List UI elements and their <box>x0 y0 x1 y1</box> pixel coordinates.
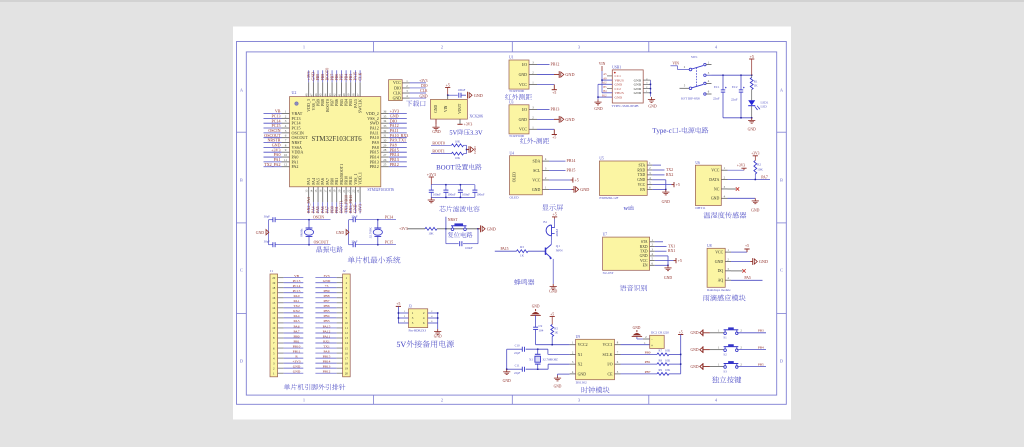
inner border frame <box>246 52 776 395</box>
U7 pin 4 GND <box>640 252 655 258</box>
wire GND <box>731 261 750 263</box>
svg-text:DC2 CR1220: DC2 CR1220 <box>651 331 669 335</box>
J2 pin 13 <box>315 334 348 340</box>
power +5 bar <box>552 89 557 91</box>
svg-text:15: 15 <box>345 346 349 350</box>
svg-text:I/O: I/O <box>522 108 527 112</box>
wire bottom loop <box>445 229 447 244</box>
wire crystal left bus <box>506 349 508 369</box>
svg-text:VCC: VCC <box>715 251 723 255</box>
svg-text:10K: 10K <box>665 358 671 362</box>
U2 top pin 47 VSS_3 <box>309 70 315 110</box>
U2 left pin 11 PA1 <box>264 158 299 165</box>
svg-text:I/O: I/O <box>522 63 527 67</box>
J1 pin 10 <box>272 324 303 330</box>
GND flag right <box>478 228 481 230</box>
U2 left pin 9 VDDA <box>264 148 304 155</box>
svg-text:30pF: 30pF <box>264 215 271 219</box>
svg-text:GND: GND <box>474 93 483 98</box>
svg-text:10K: 10K <box>428 232 434 236</box>
svg-text:STM32F103C8T6: STM32F103C8T6 <box>368 188 395 192</box>
svg-text:PA15: PA15 <box>323 324 331 328</box>
svg-text:GND: GND <box>637 178 645 182</box>
svg-text:B1: B1 <box>543 220 547 224</box>
capacitor EC2 22uF <box>731 75 745 118</box>
svg-text:VCC2: VCC2 <box>578 343 588 347</box>
svg-text:RX2: RX2 <box>666 173 673 177</box>
svg-text:GND: GND <box>393 96 402 100</box>
svg-text:RX1: RX1 <box>668 249 675 253</box>
U8 pin 3 DQ <box>718 267 731 273</box>
svg-text:PB12: PB12 <box>323 369 331 373</box>
svg-text:S3: S3 <box>723 369 727 373</box>
wire switch to caps rail <box>712 74 752 76</box>
svg-text:VIN: VIN <box>599 62 606 66</box>
svg-text:DIO: DIO <box>421 84 428 88</box>
svg-text:C10: C10 <box>515 344 521 348</box>
svg-text:PA1: PA1 <box>294 299 300 303</box>
U2 right pin 34 SWD <box>370 119 407 126</box>
title MCU pin breakout headers <box>284 384 290 390</box>
svg-text:19: 19 <box>272 281 276 285</box>
svg-text:GND: GND <box>748 128 756 132</box>
wire vcc2 bus <box>536 344 570 346</box>
wire U9 gnd <box>558 373 570 375</box>
svg-text:GND: GND <box>751 209 759 213</box>
svg-text:22uF: 22uF <box>713 97 720 101</box>
svg-text:28: 28 <box>383 148 387 152</box>
J2 pin 11 <box>315 324 348 330</box>
svg-text:1K: 1K <box>754 84 759 88</box>
wire PB14 <box>549 160 566 162</box>
no-connect NC <box>728 188 737 190</box>
svg-text:PC15: PC15 <box>385 240 393 244</box>
wire VCC +5 <box>731 251 747 253</box>
svg-text:RX2: RX2 <box>293 309 300 313</box>
svg-text:GND: GND <box>554 385 562 389</box>
sensor U3 TCRT5000 body <box>509 105 529 134</box>
svg-text:Pin-HDR2X3: Pin-HDR2X3 <box>409 329 427 333</box>
title download port <box>406 100 412 106</box>
battery plus to +5 bus <box>664 344 668 346</box>
svg-text:PB3: PB3 <box>758 329 764 333</box>
svg-text:X1: X1 <box>529 358 533 362</box>
svg-text:19: 19 <box>345 366 349 370</box>
svg-text:+5: +5 <box>679 330 683 334</box>
svg-text:22pF: 22pF <box>514 351 521 355</box>
svg-text:J2: J2 <box>343 269 346 273</box>
GND flag right <box>573 186 575 193</box>
resistor 10K BOOT0 <box>431 139 467 146</box>
ground symbol <box>667 265 669 268</box>
svg-text:14: 14 <box>345 341 349 345</box>
svg-text:10K: 10K <box>455 139 461 143</box>
USB1 left pin names <box>602 73 607 97</box>
svg-text:PC14: PC14 <box>385 215 393 219</box>
resistor R7 10K <box>657 353 669 356</box>
U2 top pin 44 BOOT0 <box>323 70 329 112</box>
U2 top pin 42 PB6 <box>333 70 339 106</box>
svg-text:GND: GND <box>664 276 672 280</box>
battery DC2 CR1220 body <box>650 335 665 348</box>
wire RXD TX2 <box>652 169 664 171</box>
svg-text:U5: U5 <box>599 157 604 161</box>
U2 left pin 8 VSSA <box>264 143 303 150</box>
svg-text:TX2: TX2 <box>293 304 300 308</box>
title crystal circuit <box>317 246 323 252</box>
svg-text:PB14: PB14 <box>567 158 576 163</box>
svg-text:29: 29 <box>383 143 387 147</box>
j3 right bus <box>437 313 439 329</box>
svg-text:+: + <box>651 344 653 348</box>
svg-text:+3V3: +3V3 <box>737 164 745 168</box>
svg-text:34: 34 <box>383 119 387 123</box>
capacitor C2 100nF <box>429 185 441 198</box>
svg-text:PB3: PB3 <box>323 319 329 323</box>
wire AQ PA5 <box>731 279 763 281</box>
J3 pin 5 <box>398 322 408 324</box>
U2 bottom pin 23 VSS_1 <box>351 173 357 213</box>
svg-text:11: 11 <box>284 158 287 162</box>
svg-text:40: 40 <box>342 93 346 96</box>
svg-text:GND: GND <box>432 130 440 134</box>
GND flag right <box>558 71 560 78</box>
J1 pin 12 <box>272 314 303 320</box>
svg-text:100nF: 100nF <box>448 193 456 197</box>
svg-text:EN: EN <box>643 264 648 268</box>
svg-text:PB13: PB13 <box>323 364 331 368</box>
svg-text:+3V3: +3V3 <box>419 79 428 83</box>
U1 pin 3 I/O <box>522 61 537 67</box>
svg-text:U3: U3 <box>509 100 514 104</box>
wire gnd <box>537 74 554 76</box>
U2 left pin 3 PC14 <box>264 119 301 126</box>
U7 pin 2 RXD <box>640 243 655 249</box>
svg-text:+5: +5 <box>552 91 556 95</box>
U5 pin 1 STA <box>639 161 653 167</box>
svg-text:KFT DIP-8X8: KFT DIP-8X8 <box>681 96 700 100</box>
svg-text:8MHz: 8MHz <box>300 228 304 237</box>
title 5V external backup power <box>397 342 400 347</box>
svg-text:SW1: SW1 <box>691 55 698 59</box>
J1 pin 9 <box>273 329 303 335</box>
svg-text:GND: GND <box>759 259 768 264</box>
U2 pin1 mark <box>295 102 299 106</box>
wire DATA <box>728 179 771 181</box>
wire EN join <box>652 189 665 191</box>
power +5 flag up <box>744 248 749 250</box>
svg-text:VDD_1: VDD_1 <box>357 172 362 185</box>
svg-text:ESP8266-12F: ESP8266-12F <box>599 196 618 200</box>
svg-text:PB1: PB1 <box>293 339 299 343</box>
GND flag right <box>752 258 754 265</box>
crystal circuit 2 wires <box>349 217 396 247</box>
svg-text:USB1: USB1 <box>612 66 621 70</box>
svg-text:AQ: AQ <box>718 279 724 283</box>
svg-text:PA12: PA12 <box>323 329 331 333</box>
svg-text:PA2: PA2 <box>292 164 299 169</box>
wire VCC +5 <box>549 179 570 181</box>
J1 pin 7 <box>273 339 303 345</box>
svg-text:+3V3: +3V3 <box>751 152 759 156</box>
svg-text:PB13: PB13 <box>551 106 560 111</box>
svg-text:16: 16 <box>345 351 349 355</box>
svg-text:NPN: NPN <box>556 249 563 253</box>
U1 pin 2 GND <box>519 71 537 77</box>
U2 bottom pin 13 PA3 <box>305 178 311 213</box>
J2 pin 19 <box>315 364 348 370</box>
J1 pin 13 <box>272 309 303 315</box>
J1 pin 2 <box>273 364 303 370</box>
U2 left pin 10 PA0 <box>264 153 299 160</box>
svg-text:33: 33 <box>383 124 387 128</box>
svg-text:R8: R8 <box>659 358 663 362</box>
svg-text:D: D <box>780 359 783 364</box>
U2 right pin 25 PB12 <box>370 163 407 170</box>
svg-text:PA7: PA7 <box>761 175 768 179</box>
svg-text:GND: GND <box>691 365 699 369</box>
module U5 ESP8266 body <box>599 161 647 195</box>
push button S2 <box>710 344 766 356</box>
svg-text:SU-03T: SU-03T <box>603 271 615 275</box>
crystal Y1 8MHz <box>300 220 314 245</box>
svg-text:GND: GND <box>715 260 724 264</box>
svg-text:27: 27 <box>383 153 387 157</box>
svg-text:S1: S1 <box>723 336 727 340</box>
wire TXD RX2 <box>652 174 664 176</box>
svg-text:3V3: 3V3 <box>323 274 329 278</box>
J3 pin 3 <box>398 317 408 319</box>
GND flag right <box>467 92 469 99</box>
svg-text:PB7: PB7 <box>323 299 329 303</box>
svg-text:PB5: PB5 <box>323 309 329 313</box>
svg-text:B: B <box>240 178 243 183</box>
svg-text:30pF: 30pF <box>351 215 358 219</box>
J1 pin 15 <box>272 299 303 305</box>
push button S1 <box>710 327 766 339</box>
J2 pin 8 <box>315 309 347 315</box>
svg-text:DHT11: DHT11 <box>695 206 706 210</box>
svg-text:VCC1: VCC1 <box>603 343 613 347</box>
U2 bottom pin 14 PA4 <box>309 178 315 213</box>
resistor R1 1K <box>751 75 753 77</box>
svg-text:PC13: PC13 <box>293 279 301 283</box>
ground symbol usb right <box>651 97 653 100</box>
svg-text:S2: S2 <box>723 352 727 356</box>
svg-text:EN: EN <box>640 188 645 192</box>
J2 pin 18 <box>315 359 348 365</box>
U2 left pin 6 OSCOUT <box>264 134 309 141</box>
svg-text:+5: +5 <box>446 82 450 87</box>
U2 top pin 40 PB4 <box>342 70 348 106</box>
svg-text:26: 26 <box>383 158 387 162</box>
svg-text:PB5: PB5 <box>758 362 764 366</box>
svg-text:+3V3: +3V3 <box>399 227 408 231</box>
frame row ticks <box>237 132 787 313</box>
J1 pin 20 <box>272 274 303 280</box>
resistor 10K reset <box>425 227 437 230</box>
wire GND down <box>652 179 665 181</box>
U3 pin 3 I/O <box>522 105 537 111</box>
U5 pin 5 VCC <box>638 181 653 187</box>
J3 pin 2 <box>428 312 438 314</box>
svg-text:PA7: PA7 <box>294 329 300 333</box>
sensor U1 TCRT5000 body <box>509 60 529 89</box>
svg-text:PB12: PB12 <box>390 162 399 167</box>
svg-text:U4: U4 <box>510 151 515 155</box>
J2 pin 1 <box>315 274 347 280</box>
J1 pin 17 <box>272 289 303 295</box>
svg-text:10K: 10K <box>757 168 763 172</box>
wire to button <box>437 228 446 230</box>
P1 pin 4 GND <box>393 94 426 100</box>
wire VCC +5 <box>655 260 674 262</box>
U10 pin VOUT lead <box>459 119 461 124</box>
title display <box>542 204 549 210</box>
svg-text:SWCLK: SWCLK <box>357 99 362 113</box>
battery pin 2 <box>643 338 650 340</box>
U2 right pin 30 PA9 <box>372 139 407 146</box>
svg-text:R7: R7 <box>659 349 663 353</box>
svg-text:10: 10 <box>272 326 276 330</box>
wire GND <box>728 197 756 199</box>
svg-text:18: 18 <box>272 286 276 290</box>
svg-text:GND: GND <box>691 331 699 335</box>
wire PA15 base <box>495 250 517 252</box>
wire EN join <box>655 264 668 266</box>
U2 bottom pin 24 VDD_1 <box>356 172 362 213</box>
svg-text:CE: CE <box>608 372 614 376</box>
svg-text:D: D <box>240 359 243 364</box>
J1 pin 5 <box>273 349 303 355</box>
svg-text:GND: GND <box>662 200 670 204</box>
svg-text:PB4: PB4 <box>323 314 329 318</box>
ground symbol <box>435 125 437 128</box>
svg-text:TX1: TX1 <box>323 344 330 348</box>
U6 pin 3 NC <box>714 185 728 191</box>
U2 top pin 37 SWCLK <box>356 70 362 113</box>
capacitor C3 100nF <box>443 185 455 198</box>
wire STA <box>655 241 663 243</box>
title chip filter caps <box>439 206 445 212</box>
U3 pin 2 GND <box>519 115 537 121</box>
wire TXD RX1 <box>655 250 667 252</box>
svg-text:PB9: PB9 <box>323 289 329 293</box>
wire PB15 <box>549 170 566 172</box>
U8 pin 4 AQ <box>718 276 731 282</box>
capacitor C5 100nF <box>472 185 484 198</box>
module U9 DS1302 body <box>576 339 615 379</box>
no-connect DQ <box>731 270 743 272</box>
U2 bottom pin 17 PA7 <box>323 178 329 213</box>
U2 bottom pin 20 PB2/BOOT1 <box>337 164 343 214</box>
title voice recognition <box>620 285 627 291</box>
wire vcc <box>537 84 554 86</box>
svg-text:VCC: VCC <box>393 81 401 85</box>
svg-text:12: 12 <box>345 331 349 335</box>
svg-text:+5: +5 <box>750 54 754 59</box>
J2 pin 12 <box>315 329 348 335</box>
svg-text:U8: U8 <box>707 244 712 248</box>
U2 top pin 38 PA15 <box>351 70 357 108</box>
GND flag rotated <box>467 149 470 151</box>
U2 right pin 27 PB14 <box>370 153 407 160</box>
U2 top pin 45 PB8 <box>319 70 325 106</box>
wire VCC +3V3 <box>728 169 745 171</box>
svg-text:PB15: PB15 <box>323 354 331 358</box>
title clock module <box>582 387 588 393</box>
svg-text:Q1: Q1 <box>556 244 560 248</box>
svg-text:STM32F103C8T6: STM32F103C8T6 <box>311 136 362 143</box>
svg-text:+5: +5 <box>550 312 554 316</box>
svg-text:PA4: PA4 <box>294 314 300 318</box>
J1 pin 4 <box>273 354 303 360</box>
svg-text:+5: +5 <box>678 258 682 263</box>
svg-text:1: 1 <box>303 398 305 403</box>
svg-text:+5: +5 <box>676 182 680 187</box>
J3 pin 6 <box>428 322 438 324</box>
push button S3 <box>710 361 766 373</box>
wire to gnd <box>477 228 479 230</box>
svg-text:100nF: 100nF <box>477 193 485 197</box>
clock crystal X1 32.768KHZ <box>526 348 570 370</box>
wire top bus <box>431 184 475 186</box>
capacitor C11 22pF <box>521 367 523 372</box>
svg-text:+3V3: +3V3 <box>292 359 300 363</box>
wire gnd <box>537 118 554 120</box>
svg-text:+3V3: +3V3 <box>464 123 473 127</box>
ground symbol <box>665 190 667 193</box>
svg-text:PB6: PB6 <box>323 304 329 308</box>
J1 pin 19 <box>272 279 303 285</box>
svg-text:TX2_PA2: TX2_PA2 <box>264 162 280 167</box>
svg-text:R9: R9 <box>659 368 663 372</box>
svg-text:1K: 1K <box>520 253 525 257</box>
U4 pin 3 SCL <box>533 167 549 173</box>
svg-text:PB12: PB12 <box>551 62 560 67</box>
j3 left bus junctions <box>398 312 400 314</box>
svg-text:GND: GND <box>503 379 511 383</box>
U2 left pin 2 PC13 <box>264 114 301 121</box>
svg-text:10K: 10K <box>665 349 671 353</box>
resistor R9 10K <box>657 372 669 375</box>
svg-text:EC1: EC1 <box>714 85 720 89</box>
svg-text:PB10: PB10 <box>293 344 301 348</box>
P1 pin 3 CLK <box>393 89 426 95</box>
U7 pin 1 STA <box>641 238 655 244</box>
resistor 10K BOOT1 <box>431 152 467 160</box>
title 5V buck 3.3V <box>450 130 453 134</box>
svg-text:GND: GND <box>565 72 574 77</box>
svg-text:VCC: VCC <box>640 259 648 263</box>
svg-text:PB8: PB8 <box>323 294 329 298</box>
svg-text:+3V3: +3V3 <box>357 204 362 213</box>
U2 bottom pin 22 PB11 <box>347 176 353 213</box>
svg-text:XC6206: XC6206 <box>469 114 483 119</box>
svg-text:PA6: PA6 <box>294 324 300 328</box>
connector P1 download port body <box>389 80 403 101</box>
svg-text:36: 36 <box>383 110 387 114</box>
svg-text:PA8: PA8 <box>324 349 330 353</box>
module U7 SU-03T body <box>603 237 650 270</box>
svg-text:C: C <box>240 268 243 273</box>
U7 pin 6 EN <box>643 261 655 267</box>
U2 top pin 46 PB9 <box>314 70 320 106</box>
svg-text:U6: U6 <box>695 161 700 165</box>
svg-text:TXD: TXD <box>638 173 646 177</box>
svg-text:B: B <box>780 178 783 183</box>
svg-text:I/O: I/O <box>607 363 612 367</box>
